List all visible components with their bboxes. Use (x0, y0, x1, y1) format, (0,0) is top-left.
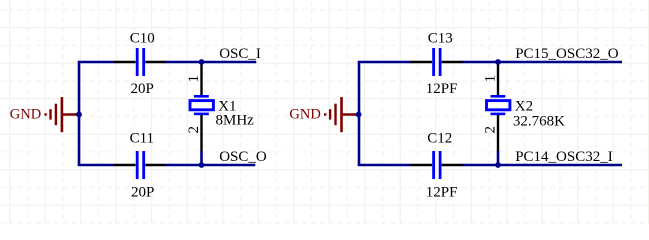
wire right vertical bus (358, 62, 361, 165)
svg-text:20P: 20P (131, 184, 154, 200)
wire left vertical bus (78, 62, 81, 165)
capacitor C11 (114, 151, 167, 179)
wire top-left horizontal segment (78, 61, 115, 64)
wire crystal bottom to bus (200, 151, 203, 165)
capacitor C10 (114, 48, 167, 76)
wire top-mid-right segment (463, 61, 499, 64)
svg-text:PC15_OSC32_O: PC15_OSC32_O (515, 46, 619, 62)
node junction top-left (crystal pin 1) (199, 59, 205, 65)
svg-text:C11: C11 (130, 131, 154, 147)
wire bottom-mid-right segment (463, 164, 499, 167)
node junction top-right (crystal pin 1) (495, 59, 501, 65)
crystal X2 (487, 62, 510, 152)
svg-text:1: 1 (483, 75, 499, 83)
svg-text:12PF: 12PF (426, 81, 458, 97)
wire top-mid segment to crystal junction (166, 61, 202, 64)
svg-text:OSC_O: OSC_O (219, 149, 267, 165)
svg-text:GND: GND (289, 107, 320, 123)
wire net PC14 stub (498, 164, 622, 167)
node junction left GND tap (76, 112, 82, 118)
wire net PC15 stub (498, 61, 622, 64)
svg-text:C13: C13 (428, 31, 453, 47)
crystal X1 (190, 62, 213, 152)
svg-text:12PF: 12PF (426, 184, 458, 200)
ground GND (right power port) (289, 97, 358, 132)
node junction right GND tap (356, 112, 362, 118)
node junction bottom-right (crystal pin 2) (495, 162, 501, 168)
wire top-right horizontal segment (358, 61, 411, 64)
svg-text:C10: C10 (130, 31, 155, 47)
capacitor C12 (411, 151, 464, 179)
capacitor C13 (411, 48, 464, 76)
svg-text:C12: C12 (427, 131, 452, 147)
wire crystal X2 bottom to bus (497, 151, 500, 165)
wire net OSC_I stub (202, 61, 257, 64)
wire bottom-mid segment (166, 164, 202, 167)
node junction bottom-left (crystal pin 2) (199, 162, 205, 168)
ground GND (left power port) (10, 97, 79, 132)
svg-text:2: 2 (186, 126, 202, 134)
svg-text:20P: 20P (131, 81, 154, 97)
svg-text:X2: X2 (515, 98, 533, 114)
svg-text:1: 1 (186, 75, 202, 83)
svg-text:8MHz: 8MHz (216, 113, 255, 129)
wire bottom-left horizontal segment (78, 164, 115, 167)
svg-text:GND: GND (10, 107, 41, 123)
svg-text:PC14_OSC32_I: PC14_OSC32_I (515, 149, 613, 165)
svg-text:32.768K: 32.768K (513, 114, 565, 130)
svg-text:OSC_I: OSC_I (219, 46, 261, 62)
wire net OSC_O stub (202, 164, 256, 167)
wire bottom-right horizontal segment (358, 164, 411, 167)
svg-text:2: 2 (483, 126, 499, 134)
